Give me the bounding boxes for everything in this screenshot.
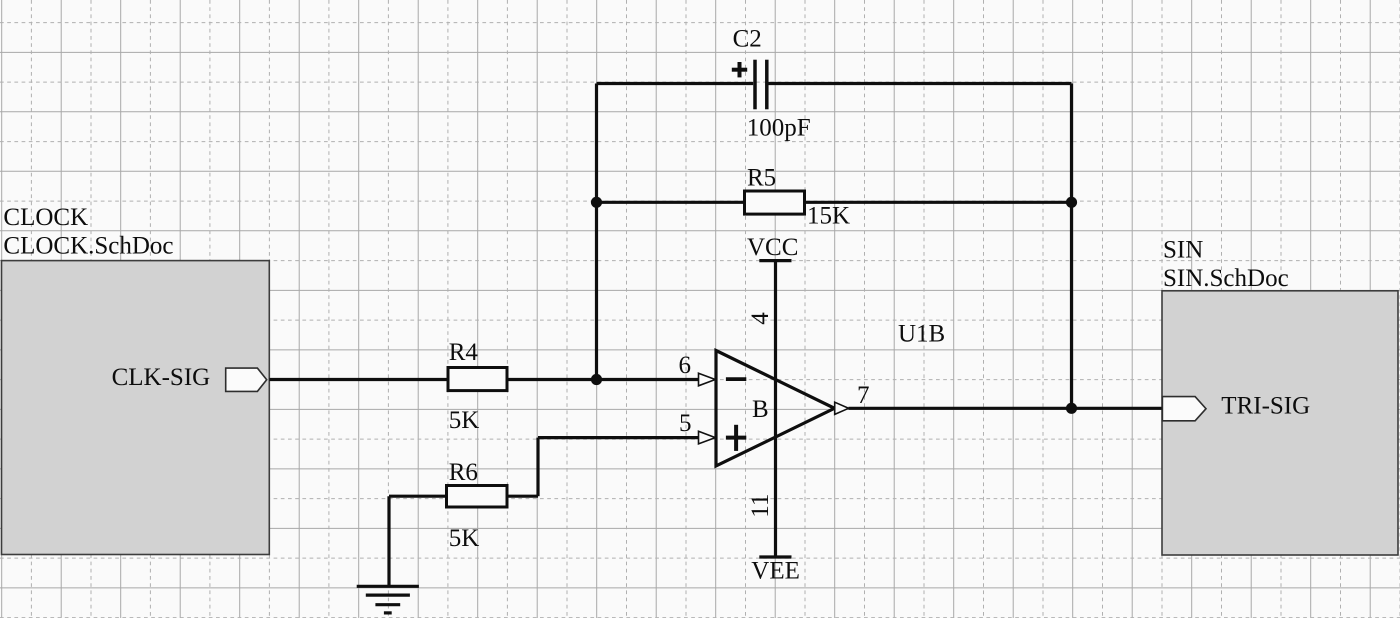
svg-text:SIN: SIN <box>1163 237 1203 264</box>
svg-text:100pF: 100pF <box>747 115 811 142</box>
svg-text:4: 4 <box>747 312 774 325</box>
svg-text:5K: 5K <box>449 525 480 552</box>
svg-text:5: 5 <box>679 410 692 437</box>
svg-text:5K: 5K <box>449 407 480 434</box>
svg-text:CLK-SIG: CLK-SIG <box>112 364 211 391</box>
svg-text:B: B <box>752 396 769 423</box>
svg-text:VEE: VEE <box>751 558 800 585</box>
svg-text:R5: R5 <box>747 165 776 192</box>
svg-text:U1B: U1B <box>898 321 945 348</box>
svg-text:R4: R4 <box>449 339 479 366</box>
svg-text:R6: R6 <box>449 459 478 486</box>
svg-text:TRI-SIG: TRI-SIG <box>1221 392 1310 419</box>
svg-text:6: 6 <box>679 352 692 379</box>
svg-text:7: 7 <box>857 382 870 409</box>
svg-text:15K: 15K <box>807 203 850 230</box>
svg-text:CLOCK.SchDoc: CLOCK.SchDoc <box>3 233 173 260</box>
svg-text:11: 11 <box>747 494 774 518</box>
svg-text:VCC: VCC <box>747 234 798 261</box>
svg-text:CLOCK: CLOCK <box>3 204 88 231</box>
svg-text:SIN.SchDoc: SIN.SchDoc <box>1163 265 1289 292</box>
svg-text:C2: C2 <box>733 26 762 53</box>
